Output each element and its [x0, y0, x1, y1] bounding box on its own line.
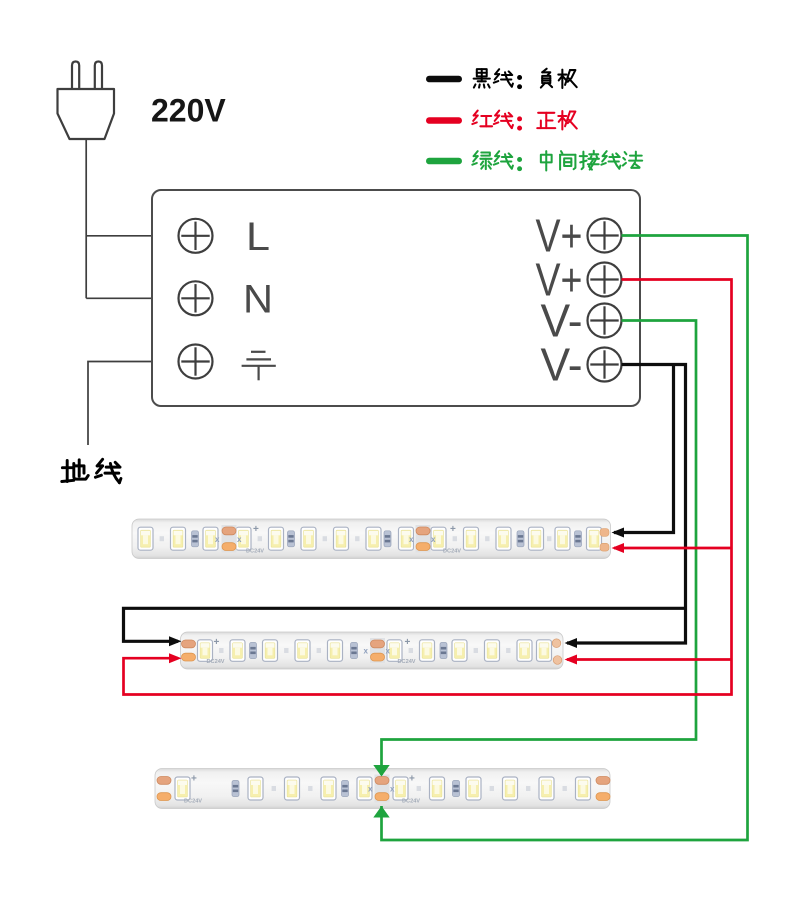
svg-text:x: x — [431, 535, 436, 544]
svg-text:220V: 220V — [151, 93, 226, 129]
svg-text:x: x — [215, 535, 220, 544]
svg-text:L: L — [246, 215, 270, 259]
svg-text:x: x — [386, 647, 391, 656]
svg-text:x: x — [368, 785, 373, 794]
svg-text:V-: V- — [541, 339, 583, 391]
svg-text:DC24V: DC24V — [184, 799, 202, 805]
svg-text:+: + — [405, 637, 411, 648]
svg-text:DC24V: DC24V — [246, 549, 264, 555]
svg-text:DC24V: DC24V — [443, 549, 461, 555]
svg-text:+: + — [409, 774, 415, 785]
svg-text:DC24V: DC24V — [398, 659, 416, 665]
svg-text:N: N — [243, 278, 273, 322]
svg-text:DC24V: DC24V — [207, 659, 225, 665]
svg-text:+: + — [450, 524, 456, 535]
svg-text:x: x — [390, 785, 395, 794]
svg-text:x: x — [409, 535, 414, 544]
svg-text:x: x — [237, 535, 242, 544]
svg-text:+: + — [214, 637, 220, 648]
svg-text:+: + — [253, 524, 259, 535]
svg-text:DC24V: DC24V — [402, 799, 420, 805]
svg-text:x: x — [364, 647, 369, 656]
svg-text:+: + — [191, 774, 197, 785]
